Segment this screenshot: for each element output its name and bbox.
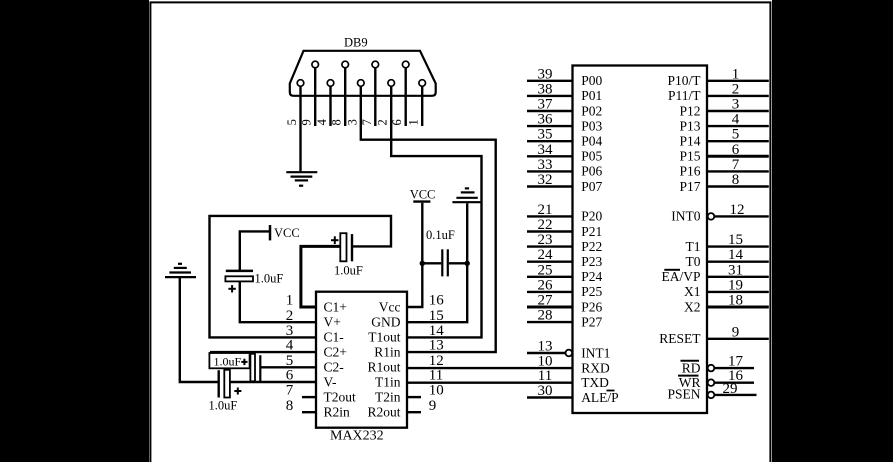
svg-text:1: 1: [732, 66, 740, 82]
wire C5 right plate to ground stem: [449, 262, 467, 264]
svg-text:P23: P23: [581, 254, 602, 269]
wire C4 right plate to V- pin6: [230, 381, 316, 383]
wire C1 right plate to top rail to C1- pin3: [210, 216, 392, 338]
U2 pin 7 P16: [679, 157, 768, 179]
U1 left pin labels: [324, 299, 356, 419]
U2 pin 37 P02: [527, 97, 602, 119]
U2 pin 9 RESET: [659, 324, 769, 346]
DB9 pin 1 socket: [419, 80, 426, 87]
wire DB9 pin 2 to MAX232 T1out pin 14: [391, 87, 481, 338]
svg-text:P10/T: P10/T: [667, 73, 701, 88]
U2 pin 24 P23: [527, 247, 602, 269]
svg-text:10: 10: [538, 354, 553, 370]
U2 pin 14 T0: [686, 247, 769, 269]
svg-text:3: 3: [345, 119, 359, 125]
U2 pin 19 X1: [684, 277, 769, 299]
U2 pin 5 P14: [679, 127, 768, 149]
U2 pin 38 P01: [527, 81, 602, 103]
svg-text:TXD: TXD: [581, 375, 609, 390]
svg-text:5: 5: [732, 127, 740, 143]
U2 pin 31 EA/VP: [661, 262, 768, 284]
svg-text:P25: P25: [581, 284, 602, 299]
svg-text:9: 9: [732, 324, 740, 340]
svg-text:P11/T: P11/T: [668, 88, 701, 103]
U2 pin 39 P00: [527, 66, 602, 88]
svg-text:R2out: R2out: [367, 405, 400, 420]
svg-text:P00: P00: [581, 73, 602, 88]
DB9 pin 9 socket: [312, 61, 319, 68]
svg-text:27: 27: [538, 293, 554, 309]
svg-text:P20: P20: [581, 209, 602, 224]
svg-text:X2: X2: [684, 299, 701, 314]
svg-text:P16: P16: [679, 164, 700, 179]
capacitor C2 right plate: [259, 355, 261, 381]
svg-text:P01: P01: [581, 88, 602, 103]
svg-text:26: 26: [538, 277, 554, 293]
capacitor C5 0.1uF left plate: [441, 249, 443, 276]
svg-text:P07: P07: [581, 179, 602, 194]
svg-text:T1in: T1in: [375, 374, 401, 389]
U2 pin 36 P03: [527, 112, 602, 134]
svg-text:9: 9: [300, 119, 314, 125]
svg-text:19: 19: [728, 277, 743, 293]
C2 plus mark: [241, 359, 247, 365]
svg-text:12: 12: [429, 353, 444, 369]
wire MAX232 pin1 C1+ up to C1 left plate: [301, 246, 340, 307]
U2 pin 28 P27: [527, 308, 602, 330]
svg-text:11: 11: [429, 368, 443, 384]
svg-text:P03: P03: [581, 118, 602, 133]
wire ground to C4 left plate: [180, 278, 219, 383]
U2 pin 18 X2: [684, 293, 769, 315]
DB9 pin 8 socket: [342, 61, 349, 68]
svg-text:30: 30: [538, 383, 553, 399]
svg-text:P14: P14: [679, 134, 700, 149]
IC U2 8051 body: [573, 66, 708, 414]
ground (DB9 pin 5 earth): [286, 172, 317, 186]
power flag VCC (left): [269, 225, 272, 240]
U2 pin 17 RD: [681, 354, 755, 376]
U2 pin 8 P17: [679, 172, 768, 194]
svg-text:V+: V+: [324, 315, 341, 330]
capacitor C5 0.1uF right plate: [447, 249, 449, 276]
power flag VCC (top): [413, 200, 430, 202]
U2 pin 1 P10/T: [667, 66, 768, 88]
svg-text:12: 12: [730, 202, 745, 218]
svg-text:ALE/P: ALE/P: [581, 390, 619, 405]
svg-text:1.0uF: 1.0uF: [334, 263, 363, 277]
wire DB9 pin 5 to ground: [299, 87, 301, 172]
svg-text:T2in: T2in: [375, 389, 401, 404]
svg-text:2: 2: [732, 81, 740, 97]
DB9 pin 3 socket: [358, 80, 365, 87]
C3 plus mark: [228, 285, 235, 292]
U2 pin 22 P21: [527, 217, 602, 239]
svg-text:38: 38: [538, 81, 553, 97]
svg-text:36: 36: [538, 112, 554, 128]
svg-text:14: 14: [429, 323, 445, 339]
svg-text:P27: P27: [581, 314, 602, 329]
svg-text:39: 39: [538, 66, 553, 82]
U2 pin 13 INT1: [527, 339, 610, 361]
svg-text:0.1uF: 0.1uF: [426, 228, 455, 242]
svg-text:RXD: RXD: [581, 360, 610, 375]
wire DB9 pin 9: [314, 68, 316, 126]
svg-text:1.0uF: 1.0uF: [214, 354, 242, 368]
U1 pin8 R2in stub: [302, 411, 316, 413]
wire DB9 pin 1: [421, 87, 423, 126]
svg-text:6: 6: [732, 142, 740, 158]
svg-text:P15: P15: [679, 149, 700, 164]
U2 pin 10 RXD: [538, 354, 610, 376]
svg-text:22: 22: [538, 217, 553, 233]
wire GND pin15 to earth: [407, 203, 467, 322]
wire T1in pin11 to MCU TXD pin11: [407, 382, 573, 384]
svg-text:T1: T1: [686, 239, 701, 254]
svg-text:8: 8: [286, 398, 294, 414]
U2 pin 3 P12: [679, 97, 768, 119]
svg-text:16: 16: [429, 293, 445, 309]
capacitor C4 1.0uF left plate: [217, 370, 219, 397]
svg-text:C2-: C2-: [324, 360, 345, 375]
svg-text:R1in: R1in: [374, 344, 401, 359]
svg-text:INT1: INT1: [581, 345, 610, 360]
U1 right pin labels: [367, 299, 400, 419]
svg-text:4: 4: [732, 112, 740, 128]
svg-text:P05: P05: [581, 149, 602, 164]
svg-text:1: 1: [286, 293, 294, 309]
capacitor C2 left plate: [250, 354, 255, 382]
svg-text:P21: P21: [581, 224, 602, 239]
U2 pin 4 P13: [679, 112, 768, 134]
svg-text:13: 13: [429, 338, 444, 354]
connector J1 DB9 shell: [290, 51, 436, 96]
svg-text:1: 1: [407, 119, 421, 125]
wire C2+ pin4: [210, 351, 316, 353]
svg-text:T1out: T1out: [368, 330, 400, 345]
svg-text:GND: GND: [371, 315, 400, 330]
wire C3 bottom to V+ pin2: [240, 281, 316, 322]
svg-text:6: 6: [390, 119, 404, 125]
ground (earth above 0.1uF): [452, 188, 482, 202]
svg-text:35: 35: [538, 127, 553, 143]
svg-text:25: 25: [538, 262, 553, 278]
U2 pin 35 P04: [527, 127, 602, 149]
wire Vcc pin16 to VCC flag: [407, 203, 422, 307]
DB9 pin 2 socket: [388, 80, 395, 87]
svg-text:9: 9: [429, 398, 437, 414]
svg-text:C2+: C2+: [324, 344, 347, 359]
svg-text:2: 2: [376, 119, 390, 125]
DB9 pin 6 socket: [402, 61, 409, 68]
svg-text:11: 11: [538, 368, 552, 384]
svg-text:7: 7: [286, 383, 294, 399]
svg-text:7: 7: [732, 157, 740, 173]
svg-text:C1-: C1-: [324, 330, 345, 345]
svg-text:MAX232: MAX232: [330, 429, 384, 444]
svg-text:P12: P12: [679, 103, 700, 118]
svg-text:3: 3: [732, 97, 740, 113]
IC U1 MAX232 body: [316, 292, 407, 428]
svg-text:13: 13: [538, 339, 553, 355]
svg-text:4: 4: [315, 118, 329, 125]
boxed label 1.0uF (C2): [209, 353, 249, 368]
svg-text:C1+: C1+: [324, 299, 347, 314]
DB9 pin 4 socket: [327, 80, 334, 87]
U2 pin 26 P25: [527, 277, 602, 299]
svg-text:10: 10: [429, 383, 444, 399]
svg-text:7: 7: [360, 119, 374, 125]
ground (left earth): [165, 264, 196, 277]
U2 pin 21 P20: [527, 202, 602, 224]
svg-text:21: 21: [538, 202, 553, 218]
wire DB9 pin 4: [329, 87, 331, 126]
svg-text:RD: RD: [682, 360, 701, 375]
U2 pin 33 P06: [527, 157, 602, 179]
svg-text:28: 28: [538, 308, 553, 324]
wire DB9 pin 7: [374, 68, 376, 126]
U2 pin 25 P24: [527, 262, 602, 284]
capacitor C1 1.0uF right plate: [351, 234, 353, 261]
capacitor C1 1.0uF left plate: [340, 233, 346, 261]
U1 pin9 R2out stub: [407, 411, 421, 413]
svg-text:23: 23: [538, 232, 553, 248]
svg-text:29: 29: [723, 381, 738, 397]
junction dot VCC / 0.1uF: [420, 261, 425, 266]
U2 pin 30 ALE/P: [527, 383, 619, 405]
capacitor C4 1.0uF right plate: [224, 370, 230, 398]
wire DB9 pin 6: [405, 68, 407, 126]
U2 pin 16 WR: [678, 368, 754, 390]
svg-text:8: 8: [732, 172, 740, 188]
svg-text:VCC: VCC: [274, 226, 300, 240]
svg-text:T2out: T2out: [324, 389, 356, 404]
svg-text:15: 15: [728, 232, 743, 248]
svg-text:P13: P13: [679, 118, 700, 133]
svg-text:R1out: R1out: [367, 360, 400, 375]
DB9 pin 7 socket: [372, 61, 379, 68]
U1 pin10 T2in stub: [407, 396, 421, 398]
wire C2 right plate to C2- pin5: [260, 366, 316, 368]
svg-text:P04: P04: [581, 134, 602, 149]
wire DB9 pin 3 to MAX232 R1in pin 13: [361, 87, 496, 353]
wire R1out pin12 to MCU RXD pin10: [407, 367, 573, 369]
svg-text:RESET: RESET: [659, 331, 701, 346]
U2 pin 29 PSEN: [667, 381, 756, 401]
schematic frame border: [150, 2, 770, 462]
svg-text:Vcc: Vcc: [379, 299, 401, 314]
svg-text:31: 31: [728, 262, 743, 278]
svg-text:P06: P06: [581, 164, 602, 179]
capacitor C3 1.0uF bottom plate: [225, 276, 253, 281]
svg-text:P17: P17: [679, 179, 700, 194]
svg-text:VCC: VCC: [410, 187, 436, 201]
svg-text:P02: P02: [581, 103, 602, 118]
svg-text:P22: P22: [581, 239, 602, 254]
C4 plus mark: [234, 388, 241, 395]
svg-text:EA/VP: EA/VP: [661, 269, 700, 284]
U2 pin 15 T1: [686, 232, 769, 254]
svg-text:PSEN: PSEN: [667, 386, 700, 401]
svg-text:14: 14: [728, 247, 744, 263]
svg-text:8: 8: [330, 119, 344, 125]
U2 pin 12 INT0: [671, 202, 769, 224]
U1 pin7 T2out stub: [302, 396, 316, 398]
svg-text:1.0uF: 1.0uF: [209, 398, 238, 412]
svg-text:INT0: INT0: [671, 209, 700, 224]
svg-text:T0: T0: [686, 254, 701, 269]
U2 pin 27 P26: [527, 293, 602, 315]
svg-text:37: 37: [538, 97, 554, 113]
svg-text:DB9: DB9: [344, 36, 368, 50]
svg-text:V-: V-: [324, 374, 338, 389]
svg-text:33: 33: [538, 157, 553, 173]
svg-text:P24: P24: [581, 269, 602, 284]
wire VCC to C5 left plate: [422, 262, 441, 264]
svg-text:R2in: R2in: [324, 405, 351, 420]
U2 pin 2 P11/T: [668, 81, 769, 103]
svg-text:17: 17: [728, 354, 744, 370]
svg-text:P26: P26: [581, 299, 602, 314]
wire VCC flag to C3 top: [240, 231, 270, 270]
svg-text:18: 18: [728, 293, 743, 309]
U2 pin 23 P22: [527, 232, 602, 254]
capacitor C3 1.0uF top plate: [226, 270, 253, 273]
wire DB9 pin 8: [344, 68, 346, 126]
U2 pin 11 TXD: [538, 368, 609, 390]
DB9 pin 5 socket: [297, 80, 304, 87]
U2 pin 6 P15: [679, 142, 768, 164]
svg-text:X1: X1: [684, 284, 701, 299]
U2 pin 32 P07: [527, 172, 602, 194]
svg-text:32: 32: [538, 172, 553, 188]
svg-text:34: 34: [538, 142, 554, 158]
C1 plus mark: [331, 236, 339, 244]
svg-text:5: 5: [285, 119, 299, 125]
U2 pin 34 P05: [527, 142, 602, 164]
U1 left pin numbers 1-8: [286, 293, 294, 414]
U1 right pin numbers 16-9: [429, 293, 445, 414]
svg-text:24: 24: [538, 247, 554, 263]
svg-text:1.0uF: 1.0uF: [255, 272, 284, 286]
junction dot ground / 0.1uF: [465, 261, 470, 266]
